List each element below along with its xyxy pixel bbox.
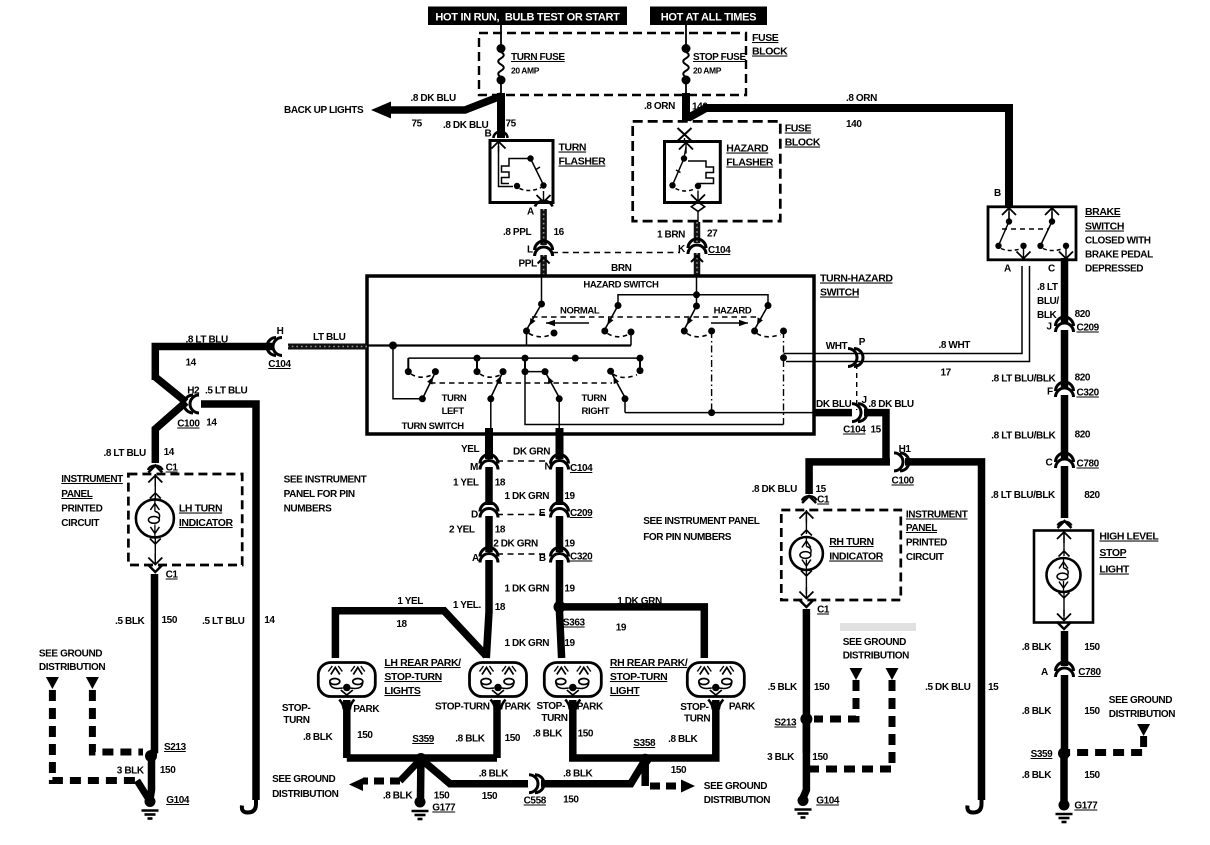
ground distribution arrow triangles (far left) [46, 677, 59, 689]
svg-text:15: 15 [871, 425, 882, 436]
svg-text:LH REAR PARK/: LH REAR PARK/ [384, 657, 461, 669]
svg-text:A: A [1041, 667, 1048, 678]
svg-text:SWITCH: SWITCH [820, 287, 859, 299]
svg-text:SEE INSTRUMENT: SEE INSTRUMENT [284, 475, 367, 486]
svg-text:1 DK GRN: 1 DK GRN [505, 638, 550, 649]
hazard right pole [765, 302, 772, 309]
wire DK BLU: switch output to connector J [814, 409, 852, 417]
svg-text:BLOCK: BLOCK [785, 137, 821, 149]
svg-text:15: 15 [816, 484, 827, 495]
svg-text:1 YEL: 1 YEL [453, 478, 479, 489]
wire ORN: stop fuse junction to right .8 ORN 140 [682, 93, 690, 121]
fuse block dashed box (hazard) [633, 121, 781, 221]
svg-text:WHT: WHT [826, 341, 848, 352]
wire: back up lights feed .8 DK BLU 75 [388, 96, 501, 110]
svg-text:150: 150 [1084, 706, 1100, 717]
svg-text:.8 ORN: .8 ORN [644, 101, 675, 112]
svg-text:.8 ORN: .8 ORN [846, 93, 877, 104]
dk grn pole movable arm [545, 372, 559, 398]
svg-text:2 YEL: 2 YEL [449, 525, 475, 536]
svg-text:FUSE: FUSE [752, 32, 779, 44]
svg-text:C558: C558 [524, 796, 547, 807]
wire 3 BLK 150: S213 to G104 [150, 756, 152, 799]
svg-text:CLOSED WITH: CLOSED WITH [1085, 236, 1151, 247]
svg-text:G104: G104 [166, 795, 190, 806]
svg-text:G177: G177 [432, 803, 456, 814]
svg-text:27: 27 [707, 229, 718, 240]
connector C1 (LH indicator bottom) [148, 565, 162, 572]
svg-text:3 BLK: 3 BLK [117, 766, 145, 777]
svg-text:.8 DK BLU: .8 DK BLU [411, 93, 456, 104]
wire 1 DK GRN 19: N to E [556, 467, 564, 505]
svg-text:DEPRESSED: DEPRESSED [1085, 264, 1143, 275]
node S359 (right) [1058, 747, 1070, 759]
center pole contact line [525, 371, 545, 373]
wire BRN: hazard flasher to connector K, 1 BRN 27 [694, 222, 701, 243]
lamp: HIGH LEVEL STOP LIGHT box [1034, 531, 1093, 623]
dashed wire: S359 to see ground distribution (left) [400, 759, 421, 781]
svg-text:TURN: TURN [283, 715, 309, 726]
wire: ground bus lamp1-lamp2 [347, 754, 497, 762]
svg-text:C104: C104 [708, 245, 731, 256]
wire 2 YEL 18: D to A [485, 516, 493, 552]
svg-text:.5 BLK: .5 BLK [768, 682, 798, 693]
svg-text:.5 DK BLU: .5 DK BLU [925, 682, 970, 693]
dashed wire: left triangle to S213 (right) [814, 680, 856, 719]
svg-text:RH TURN: RH TURN [829, 536, 873, 548]
connector diamond at hazard fuse block boundary [691, 202, 704, 211]
svg-text:DISTRIBUTION: DISTRIBUTION [1109, 709, 1175, 720]
svg-text:PRINTED: PRINTED [61, 504, 102, 515]
svg-text:B: B [994, 188, 1001, 199]
brake switch internals [1002, 208, 1016, 215]
svg-text:75: 75 [506, 119, 517, 130]
turn right pole [639, 358, 641, 369]
svg-text:140: 140 [692, 102, 708, 113]
wire .8 WHT: switch to brake switch pin A (double line) [814, 266, 1022, 354]
connector X at hazard fuse block boundary [678, 128, 692, 141]
svg-text:LH TURN: LH TURN [179, 503, 222, 515]
svg-text:DISTRIBUTION: DISTRIBUTION [704, 795, 770, 806]
svg-text:19: 19 [564, 638, 575, 649]
DK BLU output line inside switch [625, 412, 814, 414]
svg-text:STOP-TURN: STOP-TURN [610, 671, 667, 683]
svg-text:150: 150 [671, 765, 687, 776]
svg-text:STOP-: STOP- [282, 703, 310, 714]
svg-text:C: C [1046, 458, 1053, 469]
svg-text:.8 LT BLU/BLK: .8 LT BLU/BLK [991, 431, 1056, 442]
svg-text:HOT AT ALL TIMES: HOT AT ALL TIMES [661, 12, 756, 24]
svg-text:C104: C104 [843, 425, 866, 436]
svg-text:S363: S363 [563, 618, 586, 629]
wire .5 LT BLU 14: H2 right and down to front [201, 404, 256, 800]
svg-text:.8 PPL: .8 PPL [503, 227, 531, 238]
power feed label: HOT AT ALL TIMES [650, 7, 767, 26]
lamp L1 LH rear stop-turn [318, 663, 375, 697]
svg-text:75: 75 [412, 119, 423, 130]
wire 3 BLK 150: S213 to G104 (right) [803, 719, 806, 798]
ground G104 (right) [798, 795, 809, 806]
relay U2 HAZARD FLASHER box [665, 142, 721, 203]
ground distribution arrow triangles (center right) [850, 668, 863, 680]
dashed wire: left triangle to G104 [52, 690, 137, 781]
LH instrument panel printed circuit dashed box [128, 474, 242, 565]
svg-text:HAZARD: HAZARD [726, 143, 769, 155]
turn flasher contact dots and arm [527, 155, 533, 161]
wire: turn fuse to turn flasher .8 DK BLU 75 [497, 93, 505, 138]
svg-text:SEE GROUND: SEE GROUND [39, 649, 102, 660]
svg-text:STOP-TURN: STOP-TURN [435, 702, 490, 713]
svg-text:G177: G177 [1074, 801, 1098, 812]
wire .8 LT BLU/BLK 820: C209 to C320 [1061, 330, 1069, 387]
wire: WHT output line inside switch [784, 353, 815, 355]
svg-text:.8 LT BLU: .8 LT BLU [186, 335, 229, 346]
svg-text:.5 BLK: .5 BLK [115, 616, 145, 627]
svg-text:1 YEL.: 1 YEL. [453, 600, 482, 611]
svg-text:.8 BLK: .8 BLK [479, 769, 509, 780]
svg-text:18: 18 [495, 602, 506, 613]
svg-text:INSTRUMENT: INSTRUMENT [61, 474, 123, 485]
ground G177 (right) [1059, 800, 1070, 811]
svg-text:BRN: BRN [611, 263, 632, 274]
svg-text:PARK: PARK [577, 702, 604, 713]
turn-left contact hook [411, 374, 433, 377]
wire .8 BLK: lamp4 ground to S358 [645, 700, 716, 758]
connector C1 (RH indicator top) [802, 496, 816, 503]
svg-text:150: 150 [1084, 642, 1100, 653]
svg-text:.8 BLK: .8 BLK [455, 734, 485, 745]
svg-text:L: L [527, 245, 533, 256]
node: junction on DK BLU line [708, 409, 715, 416]
svg-text:INSTRUMENT: INSTRUMENT [906, 510, 968, 521]
wire .5 DK BLU 15: H1 right and down [905, 462, 982, 800]
svg-text:HAZARD: HAZARD [714, 306, 752, 317]
ground G104 (left) [145, 796, 156, 807]
wire: turn right pole to DK BLU output line [624, 399, 626, 413]
PPL pole movable contact arm [527, 304, 542, 329]
node S213 (left) [145, 750, 157, 762]
svg-text:BLOCK: BLOCK [752, 46, 788, 58]
svg-text:.8 BLK: .8 BLK [303, 732, 333, 743]
svg-text:150: 150 [1084, 770, 1100, 781]
wire: dk grn exit inside switch [558, 399, 560, 430]
power feed label: HOT IN RUN, BULB TEST OR START [428, 7, 627, 26]
svg-text:PARK: PARK [505, 702, 532, 713]
LT BLU feed line inside switch [367, 344, 631, 346]
dashed link D to E [497, 514, 551, 516]
wire 1 DK GRN 19: B down to S363 [556, 560, 564, 610]
svg-text:FOR PIN NUMBERS: FOR PIN NUMBERS [643, 532, 732, 543]
switch S2 BRAKE SWITCH box [988, 207, 1076, 260]
wire .8 BLK 150: C558 to S358 [541, 760, 645, 784]
connector C1 (RH indicator bottom) [799, 600, 813, 607]
svg-text:DISTRIBUTION: DISTRIBUTION [39, 662, 105, 673]
svg-text:C209: C209 [570, 508, 593, 519]
svg-text:1 BRN: 1 BRN [657, 230, 685, 241]
svg-text:.8 BLK: .8 BLK [563, 769, 593, 780]
node: bus dots [474, 355, 481, 362]
svg-text:PRINTED: PRINTED [906, 538, 947, 549]
lamp L4 RH rear stop-turn [687, 663, 744, 697]
svg-text:STOP FUSE: STOP FUSE [693, 52, 746, 63]
node: turn-left arm pivot [419, 395, 426, 402]
node: turn fuse top [497, 44, 506, 53]
wire .5 BLK 150: LH indicator to ground [151, 574, 159, 753]
svg-text:LIGHT: LIGHT [610, 685, 640, 697]
svg-text:TURN FUSE: TURN FUSE [511, 52, 565, 63]
wire 1 YEL 18 branch: to lamp 1 [335, 611, 486, 658]
svg-text:.8 BLK: .8 BLK [668, 734, 698, 745]
svg-text:150: 150 [160, 765, 176, 776]
hazard left pole [615, 302, 622, 309]
wire end hook (.5 DK BLU off-page) [967, 798, 981, 813]
wire .8 BLK 150: S359 to G177 (right) [1060, 753, 1068, 802]
svg-text:.8 BLK: .8 BLK [383, 791, 413, 802]
wire 150: S359 to G177 [417, 759, 425, 799]
dashed wire: right triangle to S213 [92, 690, 143, 752]
wire 1 YEL 18: M to D [485, 467, 493, 505]
svg-text:A: A [1004, 264, 1011, 275]
wire: feed into stop fuse [685, 25, 687, 47]
node: yel pole bottom [487, 395, 494, 402]
wire LT BLU: switch to connector H [288, 344, 367, 350]
svg-text:NORMAL: NORMAL [560, 306, 600, 317]
node: stop fuse bottom [682, 76, 691, 85]
wire: BRN entry into switch [696, 276, 698, 304]
svg-text:D: D [471, 510, 478, 521]
svg-text:18: 18 [495, 525, 506, 536]
svg-text:SEE INSTRUMENT PANEL: SEE INSTRUMENT PANEL [643, 516, 760, 527]
wire .8 BLK 150: S359 to C558 [421, 759, 528, 784]
turn switch coupling dashed line [430, 382, 612, 384]
svg-text:820: 820 [1075, 373, 1091, 384]
fuse F2 STOP FUSE 20 AMP [683, 52, 689, 77]
wire: hazard left pole to LT BLU line [630, 332, 632, 346]
wire: turn fuse to junction [500, 80, 502, 95]
wire: PPL pole to LT BLU line [526, 331, 528, 346]
node: WHT output [780, 354, 787, 361]
connector cap at turn flasher pin B [494, 132, 508, 139]
svg-text:YEL: YEL [461, 444, 480, 455]
node S358 [639, 754, 651, 766]
normal direction arrow [546, 322, 589, 324]
dashed link A to B [497, 553, 551, 555]
turn right movable arm [611, 371, 625, 397]
connector C558 [535, 775, 544, 793]
svg-text:.8 BLK: .8 BLK [1022, 706, 1052, 717]
svg-text:A: A [527, 207, 534, 218]
wire: branch left to RH turn indicator [809, 462, 890, 494]
svg-text:.8 DK BLU: .8 DK BLU [443, 120, 488, 131]
node: turn fuse bottom [497, 76, 506, 85]
svg-text:14: 14 [186, 358, 197, 369]
svg-text:PPL: PPL [519, 259, 538, 270]
svg-text:820: 820 [1075, 309, 1091, 320]
svg-text:C320: C320 [1077, 388, 1100, 399]
lamp: RH TURN INDICATOR [799, 512, 813, 519]
node: dk grn pole bottom [556, 395, 563, 402]
svg-text:19: 19 [564, 491, 575, 502]
svg-text:150: 150 [563, 795, 579, 806]
fuse F1 TURN FUSE 20 AMP [498, 52, 504, 77]
svg-text:G104: G104 [816, 796, 840, 807]
wire: stop fuse down [685, 80, 687, 95]
svg-text:820: 820 [1075, 430, 1091, 441]
dashed wire: triangle to S359 (right) [1067, 736, 1144, 753]
svg-text:S213: S213 [774, 718, 797, 729]
svg-text:150: 150 [505, 733, 521, 744]
svg-text:BLK: BLK [1037, 310, 1058, 321]
node S363 [554, 601, 566, 613]
svg-text:17: 17 [941, 368, 952, 379]
svg-text:DK GRN: DK GRN [513, 447, 550, 458]
turn switch bus line [408, 357, 640, 359]
svg-text:C100: C100 [177, 419, 200, 430]
hazard flasher internals [679, 143, 693, 150]
svg-text:1 YEL: 1 YEL [397, 596, 423, 607]
svg-text:C1: C1 [817, 605, 830, 616]
svg-text:K: K [678, 244, 686, 255]
wire .8 DK BLU 15: J to H1 [864, 413, 886, 462]
svg-text:TURN: TURN [582, 393, 607, 404]
svg-text:STOP-: STOP- [680, 702, 708, 713]
wire: bus to turn-left fixed contact [407, 358, 409, 371]
svg-text:SEE GROUND: SEE GROUND [1109, 695, 1172, 706]
svg-text:TURN: TURN [442, 393, 467, 404]
wire 1 DK GRN 19: S363 down to lamp 3 [560, 607, 562, 658]
wire: PPL entry into switch [541, 276, 543, 302]
svg-text:C104: C104 [268, 359, 291, 370]
dashed link P to J [856, 364, 858, 410]
svg-text:150: 150 [357, 730, 373, 741]
wire .8 LT BLU/BLK 820: C780 to high level stop light [1061, 466, 1069, 518]
svg-text:16: 16 [554, 227, 565, 238]
connector J of C104 [858, 404, 867, 422]
svg-text:B: B [485, 129, 492, 140]
svg-text:C780: C780 [1077, 459, 1100, 470]
wire .8 BLK 150: stop light to C780 [1061, 631, 1069, 666]
svg-text:19: 19 [564, 539, 575, 550]
wire .8 LT BLU/BLK 820: brake switch C down [1061, 258, 1069, 322]
svg-text:CIRCUIT: CIRCUIT [906, 552, 944, 563]
svg-text:STOP-: STOP- [537, 701, 565, 712]
turn flasher heater meander [502, 159, 530, 184]
node: stop fuse top [682, 44, 691, 53]
svg-text:C1: C1 [166, 463, 179, 474]
node: LT BLU junction [389, 342, 397, 350]
svg-text:C100: C100 [892, 476, 915, 487]
svg-text:PANEL: PANEL [61, 489, 92, 500]
svg-text:14: 14 [206, 418, 217, 429]
wire .8 LT BLU 14: H to corner [155, 347, 272, 381]
svg-text:HIGH LEVEL: HIGH LEVEL [1099, 531, 1159, 543]
wire 1 YEL 18: A down to LH lamps [486, 560, 489, 658]
node: turn-left second contact [432, 368, 439, 375]
wire .8 BLK 150: C780 to S359 [1061, 675, 1069, 753]
center pole: bus to contact [524, 358, 526, 371]
svg-text:20 AMP: 20 AMP [511, 66, 540, 76]
svg-text:C1: C1 [166, 570, 179, 581]
svg-text:FUSE: FUSE [785, 123, 812, 135]
svg-text:.8 BLK: .8 BLK [533, 729, 563, 740]
svg-text:LEFT: LEFT [442, 406, 465, 417]
svg-text:DISTRIBUTION: DISTRIBUTION [272, 789, 338, 800]
svg-text:HOT IN RUN, BULB TEST OR STAR: HOT IN RUN, BULB TEST OR START [435, 12, 620, 24]
svg-text:BRAKE: BRAKE [1085, 206, 1121, 218]
svg-text:SEE GROUND: SEE GROUND [272, 774, 335, 785]
wire: center pole down to hazard return line [525, 372, 784, 425]
wire .5 BLK 150: RH indicator to ground [803, 609, 811, 753]
svg-text:RH REAR PARK/: RH REAR PARK/ [610, 657, 688, 669]
node: BRN junction on top line [693, 291, 700, 298]
svg-text:FLASHER: FLASHER [559, 156, 607, 168]
svg-text:15: 15 [988, 682, 999, 693]
node S213 (right) [800, 713, 812, 725]
svg-text:A: A [472, 553, 479, 564]
wire .8 LT BLU 14: down to LH turn indicator C1 [155, 402, 186, 463]
fuse block dashed box (top) [479, 33, 746, 95]
wire: hazard right pole to WHT node (dash-dot) [783, 331, 785, 425]
node: PPL pole pivot [538, 301, 545, 308]
svg-text:1 DK GRN: 1 DK GRN [505, 584, 550, 595]
svg-text:150: 150 [812, 752, 828, 763]
svg-text:C104: C104 [570, 463, 593, 474]
wire: yel exit inside switch [490, 399, 492, 430]
svg-text:.8 WHT: .8 WHT [939, 340, 971, 351]
svg-text:1 DK GRN: 1 DK GRN [505, 491, 550, 502]
yel pole movable arm [491, 372, 503, 398]
svg-text:F: F [1047, 387, 1053, 398]
svg-text:RIGHT: RIGHT [582, 406, 610, 417]
svg-text:PARK: PARK [353, 704, 380, 715]
relay U1 TURN FLASHER box [490, 141, 553, 203]
hazard flasher pin exit [691, 195, 705, 202]
wire end hook (.5 LT BLU off-page) [242, 798, 256, 813]
svg-text:1 DK GRN: 1 DK GRN [617, 596, 662, 607]
svg-text:BLU/: BLU/ [1037, 296, 1059, 307]
svg-text:.8 DK BLU: .8 DK BLU [752, 484, 797, 495]
switch S1 TURN-HAZARD SWITCH box [367, 276, 814, 434]
svg-text:DISTRIBUTION: DISTRIBUTION [843, 651, 909, 662]
svg-text:S358: S358 [633, 738, 656, 749]
turn flasher internals [492, 142, 506, 149]
wire .8 BLK 150: lamp3 ground to S358 [573, 700, 645, 758]
svg-text:SWITCH: SWITCH [1085, 221, 1124, 233]
hazard flasher heater meander [688, 161, 714, 186]
svg-text:CIRCUIT: CIRCUIT [61, 518, 99, 529]
node S359 (center) [415, 753, 427, 765]
svg-text:.8 LT BLU/BLK: .8 LT BLU/BLK [991, 490, 1056, 501]
svg-text:NUMBERS: NUMBERS [284, 504, 332, 515]
svg-text:INDICATOR: INDICATOR [829, 551, 884, 563]
turn left movable contact arm [422, 374, 434, 399]
turn flasher pin A exit [537, 195, 551, 202]
svg-text:.8 DK BLU: .8 DK BLU [868, 399, 913, 410]
svg-text:14: 14 [164, 447, 175, 458]
svg-text:SEE GROUND: SEE GROUND [843, 637, 906, 648]
svg-text:LIGHTS: LIGHTS [384, 685, 420, 697]
svg-text:150: 150 [482, 791, 498, 802]
svg-text:140: 140 [846, 119, 862, 130]
svg-text:150: 150 [578, 729, 594, 740]
svg-text:2 DK GRN: 2 DK GRN [493, 539, 538, 550]
smudge artifact above see ground distribution [840, 623, 916, 631]
wire .8 BLK 150: lamp1 ground down [343, 700, 351, 758]
dashed link connector L to K (C104) [552, 252, 680, 254]
svg-text:18: 18 [396, 619, 407, 630]
wire 1 DK GRN 19: S363 to RH lamp 4 [560, 607, 705, 658]
connector C1 (LH indicator top) [148, 466, 162, 473]
